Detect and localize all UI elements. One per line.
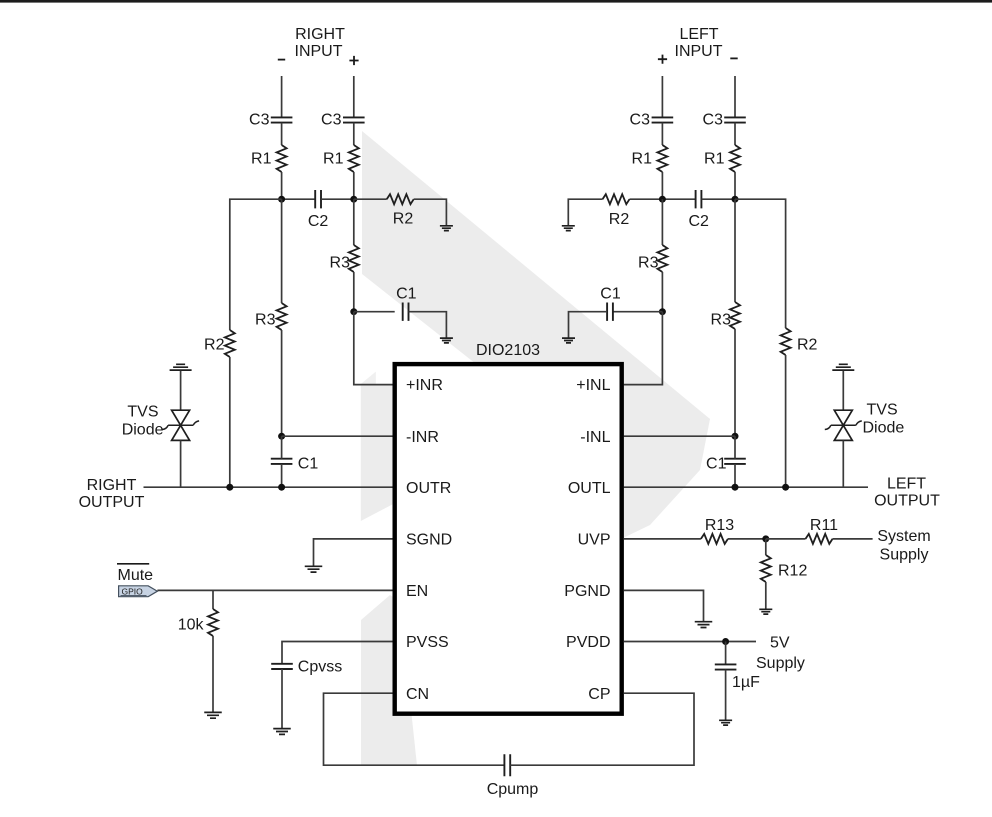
pin label OUTR: [406, 480, 451, 497]
node -IN junction (right): [278, 196, 285, 203]
svg-text:OUTPUT: OUTPUT: [79, 494, 145, 511]
label DIO2103: [476, 342, 540, 359]
capacitor C1 (right output): [271, 456, 319, 473]
capacitor C3 (right input -): [249, 112, 292, 129]
plus terminal left input: [658, 55, 667, 64]
svg-text:-INL: -INL: [580, 429, 610, 446]
svg-text:R3: R3: [255, 312, 276, 329]
wire C3 to R1 (left input -): [734, 123, 736, 145]
net label Mute: [118, 567, 154, 584]
svg-text:Diode: Diode: [122, 422, 164, 439]
wire C1 node to cap (left): [613, 311, 662, 313]
wire -INL node to pin: [624, 435, 735, 437]
wire R2 to output line (right): [229, 357, 231, 487]
svg-text:C1: C1: [396, 286, 417, 303]
capacitor C1 feedback (right): [396, 286, 417, 321]
TVS diode (right): [162, 410, 199, 440]
node -IN junction (left): [732, 196, 739, 203]
resistor R2 feedback (left): [781, 328, 818, 355]
svg-text:PVSS: PVSS: [406, 634, 449, 651]
node output/R2 (right): [226, 484, 233, 491]
svg-text:R2: R2: [204, 337, 225, 354]
svg-text:10k: 10k: [178, 617, 205, 634]
ground 1uF: [719, 720, 732, 725]
resistor R3 (right +): [330, 245, 359, 272]
svg-text:C2: C2: [688, 213, 709, 230]
wire R3 to -INL node (left): [734, 329, 736, 436]
capacitor C1 (left output): [706, 456, 746, 473]
svg-text:Supply: Supply: [756, 655, 805, 672]
watermark stem upper: [361, 385, 397, 521]
node -INR: [278, 433, 285, 440]
wire right output line: [144, 486, 393, 488]
watermark logo band: [362, 131, 710, 538]
ground TVS (right): [170, 364, 192, 370]
capacitor Cpvss: [271, 659, 342, 676]
resistor R11: [806, 517, 839, 544]
pin label +INR: [406, 377, 443, 394]
label LEFT INPUT line2: [675, 43, 723, 60]
wire C1 node to +INL pin: [624, 312, 663, 385]
capacitor C3 (left input -): [703, 112, 746, 129]
GPIO flag: [119, 586, 158, 597]
pin label SGND: [406, 532, 452, 549]
svg-text:TVS: TVS: [127, 404, 158, 421]
svg-text:+INL: +INL: [576, 377, 610, 394]
node output/C1 (left): [732, 484, 739, 491]
pin label -INR: [406, 429, 439, 446]
label LEFT OUTPUT line1: [887, 476, 926, 493]
ground C1 feedback (left): [562, 338, 575, 343]
wire C1 node to cap (right): [354, 311, 395, 313]
wire R3 to C1 node (right +): [353, 272, 355, 312]
svg-text:System: System: [877, 528, 930, 545]
wire 1uF to ground: [725, 670, 727, 720]
wire R3 column (left -): [734, 199, 736, 302]
wire junction row to C2 (left): [662, 198, 695, 200]
ground R12: [759, 609, 772, 614]
wire junction to R3 (left +): [661, 199, 663, 245]
svg-text:C1: C1: [600, 286, 621, 303]
TVS diode (left): [825, 410, 862, 440]
node UVP divider: [762, 535, 769, 542]
label LEFT INPUT line1: [679, 26, 718, 43]
wire EN to 10k: [212, 590, 214, 609]
pin label OUTL: [568, 480, 611, 497]
node C1/R3 (left): [659, 308, 666, 315]
node PVDD: [722, 638, 729, 645]
wire R1 to junction (left input +): [661, 172, 663, 199]
wire C3 to R1 (right input -): [281, 123, 283, 145]
wire R12 top: [765, 539, 767, 555]
wire C1 node to +INR pin: [354, 312, 393, 385]
svg-text:C1: C1: [298, 456, 319, 473]
svg-text:R3: R3: [638, 254, 659, 271]
label RIGHT INPUT line1: [295, 26, 345, 43]
svg-text:C2: C2: [308, 213, 329, 230]
watermark stem lower: [361, 595, 417, 766]
wire junction to R3 (right +): [353, 199, 355, 245]
wire CP loop: [510, 693, 694, 765]
svg-text:Diode: Diode: [863, 420, 905, 437]
wire TVS ground stem (right): [180, 371, 182, 411]
svg-text:TVS: TVS: [867, 402, 898, 419]
wire 10k to ground: [212, 636, 214, 712]
resistor R1 (right input -): [251, 145, 287, 172]
label RIGHT OUTPUT line1: [87, 477, 137, 494]
wire TVS ground stem (left): [842, 371, 844, 411]
wire C1 to output line (left): [734, 464, 736, 487]
wire -INR node to C1 (right): [281, 436, 283, 459]
wire C2 to junction plus (right): [321, 198, 354, 200]
svg-text:GPIO: GPIO: [122, 586, 144, 596]
wire junction minus to left col (right): [230, 199, 282, 330]
wire right input minus to C3: [281, 76, 283, 117]
svg-text:LEFT: LEFT: [887, 476, 926, 493]
pin label CP: [588, 686, 610, 703]
svg-text:C3: C3: [321, 112, 342, 129]
ground 10k: [204, 712, 222, 718]
svg-text:INPUT: INPUT: [295, 43, 343, 60]
svg-text:R2: R2: [609, 211, 630, 228]
resistor R3 (right -): [255, 303, 287, 330]
wire R1 to junction (right input -): [281, 172, 283, 199]
svg-text:RIGHT: RIGHT: [295, 26, 345, 43]
wire R1 to junction (right input +): [353, 172, 355, 199]
pin label +INL: [576, 377, 610, 394]
pin label PVDD: [566, 634, 610, 651]
svg-text:OUTR: OUTR: [406, 480, 451, 497]
svg-text:+INR: +INR: [406, 377, 443, 394]
capacitor C2 (left): [688, 190, 709, 230]
wire TVS to output line (left): [842, 440, 844, 487]
pin label PVSS: [406, 634, 449, 651]
wire SGND pin: [314, 539, 393, 566]
wire R11 to system supply: [833, 538, 873, 540]
node +IN junction (left): [659, 196, 666, 203]
svg-text:R3: R3: [330, 254, 351, 271]
svg-text:R11: R11: [810, 517, 838, 534]
net label Mute overline: [117, 563, 149, 565]
wire right input plus to C3: [353, 76, 355, 117]
resistor R1 (left input +): [632, 145, 668, 172]
wire left input plus to C3: [661, 76, 663, 117]
resistor R13: [701, 517, 734, 544]
minus terminal left input: [730, 57, 737, 59]
plus terminal right input: [349, 56, 358, 65]
wire -INR node to pin: [282, 435, 393, 437]
label LEFT OUTPUT line2: [874, 493, 940, 510]
wire far R2 column (left): [735, 199, 786, 328]
svg-text:C1: C1: [706, 456, 727, 473]
wire R2 shunt to ground (left): [568, 199, 602, 225]
wire PVDD pin: [624, 641, 756, 643]
resistor R3 (left +): [638, 245, 667, 272]
svg-text:SGND: SGND: [406, 532, 452, 549]
resistor R2 feedback (right): [204, 330, 235, 357]
resistor R2 shunt (right): [387, 194, 414, 228]
svg-text:R2: R2: [393, 211, 414, 228]
wire Cpvss to ground: [281, 669, 283, 728]
wire C2 to junction minus (left): [702, 198, 735, 200]
wire R12 to ground: [765, 582, 767, 609]
ground C1 feedback (right): [440, 338, 453, 343]
resistor R12: [761, 555, 808, 582]
svg-text:R2: R2: [797, 337, 818, 354]
resistor 10k: [178, 609, 218, 636]
svg-text:C3: C3: [249, 112, 270, 129]
pin label PGND: [564, 583, 610, 600]
pin label -INL: [580, 429, 610, 446]
capacitor Cpump: [487, 754, 539, 798]
node +IN junction (right): [350, 196, 357, 203]
label TVS (left) line2: [863, 420, 905, 437]
wire PVDD to 1uF: [725, 642, 727, 665]
capacitor C2 (right): [308, 190, 329, 230]
wire CN loop: [324, 693, 505, 765]
wire PVSS pin: [282, 642, 393, 664]
top border bar: [0, 0, 992, 3]
svg-text:R3: R3: [711, 312, 732, 329]
wire R2 to output line (left): [785, 355, 787, 487]
svg-text:RIGHT: RIGHT: [87, 477, 137, 494]
wire R1 to junction (left input -): [734, 172, 736, 199]
wire R3 to -INR node (right): [281, 330, 283, 436]
svg-text:5V: 5V: [770, 635, 790, 652]
wire R3 column (right -): [281, 199, 283, 303]
watermark stem upper wedge: [361, 372, 376, 384]
svg-text:LEFT: LEFT: [679, 26, 718, 43]
svg-text:1µF: 1µF: [732, 674, 760, 691]
wire C1 to ground (left): [569, 312, 608, 338]
capacitor C3 (left input +): [630, 112, 674, 129]
svg-text:R13: R13: [705, 517, 734, 534]
svg-text:PGND: PGND: [564, 583, 610, 600]
ground R2 shunt (left): [562, 226, 575, 231]
svg-text:C3: C3: [703, 112, 724, 129]
svg-text:R1: R1: [632, 151, 653, 168]
label System Supply line1: [877, 528, 930, 545]
pin label EN: [406, 583, 428, 600]
svg-text:PVDD: PVDD: [566, 634, 610, 651]
svg-text:C3: C3: [630, 112, 651, 129]
svg-text:Supply: Supply: [880, 546, 929, 563]
svg-text:INPUT: INPUT: [675, 43, 723, 60]
node C1/R3 (right): [350, 308, 357, 315]
wire R3 to C1 node (left +): [661, 272, 663, 312]
wire node to R11: [766, 538, 806, 540]
capacitor C1 feedback (left): [600, 286, 621, 321]
svg-text:R1: R1: [323, 151, 344, 168]
node -INL: [732, 433, 739, 440]
label TVS (left) line1: [867, 402, 898, 419]
svg-text:CP: CP: [588, 686, 610, 703]
wire left output line: [624, 486, 868, 488]
wire EN pin: [157, 589, 392, 591]
resistor R2 shunt (left): [603, 194, 630, 228]
minus terminal right input: [278, 59, 285, 61]
svg-text:Cpvss: Cpvss: [298, 659, 342, 676]
resistor R1 (right input +): [323, 145, 359, 172]
svg-text:EN: EN: [406, 583, 428, 600]
label 5V Supply line2: [756, 655, 805, 672]
resistor R1 (left input -): [704, 145, 740, 172]
wire -INL node to C1 (left): [734, 436, 736, 459]
wire PGND pin: [624, 590, 704, 621]
label 5V Supply line1: [770, 635, 790, 652]
wire junction to R2 shunt (right): [354, 198, 387, 200]
svg-text:CN: CN: [406, 686, 429, 703]
capacitor 1uF: [715, 664, 760, 691]
wire R13 to node: [728, 538, 766, 540]
ground TVS (left): [832, 364, 854, 370]
wire TVS to output line (right): [180, 440, 182, 487]
svg-text:OUTPUT: OUTPUT: [874, 493, 940, 510]
ground Cpvss: [273, 729, 291, 735]
label TVS (right) line1: [127, 404, 158, 421]
svg-text:R1: R1: [251, 151, 272, 168]
capacitor C3 (right input +): [321, 112, 365, 129]
wire junction row to C2 left (right): [282, 198, 315, 200]
wire C1 to output line (right): [281, 464, 283, 487]
svg-text:UVP: UVP: [578, 532, 611, 549]
wire junction to R2 shunt (left): [630, 198, 663, 200]
svg-text:OUTL: OUTL: [568, 480, 611, 497]
label RIGHT INPUT line2: [295, 43, 343, 60]
node output/R2 (left): [782, 484, 789, 491]
wire C1 to ground (right): [409, 312, 447, 338]
svg-text:DIO2103: DIO2103: [476, 342, 540, 359]
svg-text:-INR: -INR: [406, 429, 439, 446]
wire C3 to R1 (right input +): [353, 123, 355, 145]
svg-text:Cpump: Cpump: [487, 781, 539, 798]
label System Supply line2: [880, 546, 929, 563]
wire C3 to R1 (left input +): [661, 123, 663, 145]
svg-text:Mute: Mute: [118, 567, 154, 584]
resistor R3 (left -): [711, 302, 740, 329]
ground PGND: [695, 622, 713, 628]
ground R2 shunt (right): [440, 226, 453, 231]
svg-text:R12: R12: [778, 563, 807, 580]
pin label CN: [406, 686, 429, 703]
svg-text:R1: R1: [704, 151, 725, 168]
pin label UVP: [578, 532, 611, 549]
op-amp IC U1 DIO2103 body: [395, 364, 622, 714]
label RIGHT OUTPUT line2: [79, 494, 145, 511]
wire R2 shunt to ground (right): [414, 199, 447, 225]
node output/C1 (right): [278, 484, 285, 491]
wire left input minus to C3: [734, 76, 736, 117]
label TVS (right) line2: [122, 422, 164, 439]
ground SGND: [305, 566, 323, 572]
wire UVP to R13: [624, 538, 701, 540]
